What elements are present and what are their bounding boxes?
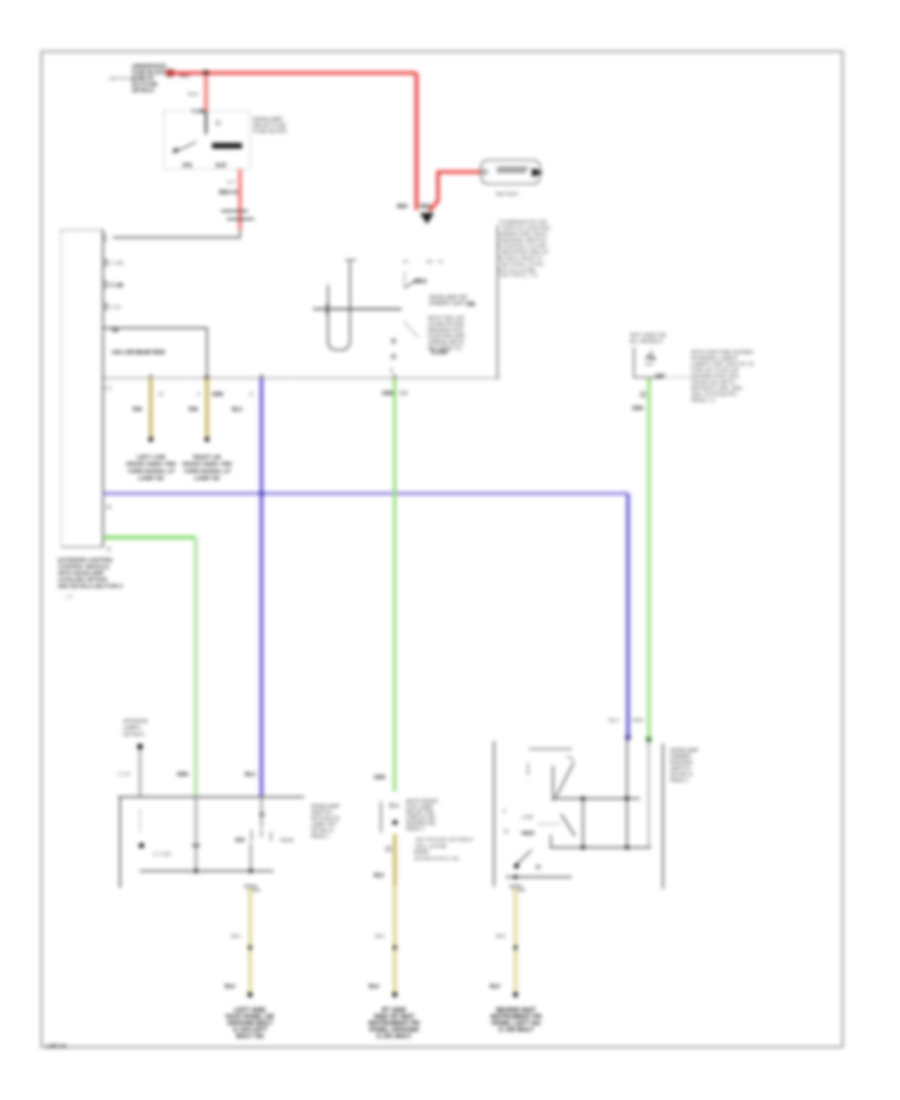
- tan g2 mid node: [393, 946, 397, 950]
- DRL module bracket: [634, 347, 662, 378]
- dimmer box right bar: [662, 744, 664, 890]
- connector row C2 dashed: [103, 377, 500, 379]
- inner dash: [527, 763, 529, 775]
- vert blue continuation: [626, 739, 628, 848]
- svg-text:C 100: C 100: [192, 109, 206, 115]
- relay name text: [253, 117, 288, 135]
- wire tan switch ground: [248, 888, 252, 994]
- svg-text:8: 8: [250, 392, 253, 398]
- switch boundary vertical: [497, 225, 499, 378]
- svg-text:INTERIOR: INTERIOR: [123, 719, 148, 725]
- dimmer wiper: [404, 279, 419, 288]
- svg-text:FLASH: FLASH: [431, 350, 448, 356]
- svg-text:LAMP GD: LAMP GD: [138, 476, 164, 482]
- svg-text:BLK: BLK: [225, 984, 236, 990]
- bottom bus line: [506, 876, 572, 878]
- svg-text:LAMP GD: LAMP GD: [194, 476, 220, 482]
- svg-text:9: 9: [197, 392, 200, 398]
- vert mid: [582, 799, 584, 848]
- svg-text:PAGE 2: PAGE 2: [670, 778, 688, 784]
- svg-text:FRONT PARK TRN: FRONT PARK TRN: [182, 462, 231, 468]
- tan g1 end node: [247, 992, 252, 997]
- position text lines: [429, 295, 472, 307]
- svg-text:RED 0.5: RED 0.5: [219, 190, 238, 196]
- svg-text:60 A: 60 A: [188, 92, 199, 98]
- contact circle: [260, 813, 264, 817]
- contact ticks: [252, 830, 272, 841]
- node S110 junction: [203, 70, 209, 76]
- switch pole blue: [261, 797, 263, 828]
- dimmer passing name text: [670, 748, 699, 784]
- wire red battery branch: [429, 172, 483, 211]
- svg-text:CONTROL MODULE: CONTROL MODULE: [58, 565, 110, 571]
- pin C152: [103, 304, 121, 311]
- svg-text:FRONT PARK TRN: FRONT PARK TRN: [126, 462, 175, 468]
- node C117 dot: [137, 744, 143, 750]
- svg-text:BLK: BLK: [369, 984, 380, 990]
- wire tan low beam left: [149, 378, 153, 438]
- svg-text:INFORMATION G 201: INFORMATION G 201: [414, 856, 460, 861]
- relay K1 box: [164, 111, 250, 169]
- svg-text:PAGE 2 2: PAGE 2 2: [691, 398, 715, 404]
- node B-blue: [625, 846, 629, 850]
- wire to module: [113, 230, 240, 238]
- svg-text:86: 86: [173, 148, 179, 154]
- svg-text:GRN: GRN: [382, 391, 394, 397]
- dimmer box left bar: [493, 741, 495, 887]
- DRL contact marks: [645, 363, 653, 365]
- bus line A: [553, 798, 640, 800]
- svg-text:GRN: GRN: [632, 406, 644, 412]
- node bottom: [514, 875, 518, 879]
- headlamp switch inner bottom: [140, 870, 274, 872]
- svg-text:EXTERIOR LIGHTING: EXTERIOR LIGHTING: [58, 558, 113, 564]
- svg-text:30: 30: [438, 259, 444, 264]
- battery B1: [481, 160, 543, 198]
- pin tick T4: [394, 375, 396, 382]
- wire blue corner down: [626, 494, 630, 738]
- svg-text:A16 LOW BEAM FEED: A16 LOW BEAM FEED: [112, 350, 165, 356]
- svg-text:C 140: C 140: [110, 261, 124, 267]
- node B-mid: [581, 846, 585, 850]
- svg-text:A6: A6: [112, 328, 119, 334]
- svg-text:56B: 56B: [399, 391, 409, 397]
- green splice circle: [641, 392, 646, 397]
- wire red relay output: [238, 169, 242, 230]
- ground text G104: [226, 1007, 275, 1040]
- svg-text:PAGE 1: PAGE 1: [311, 834, 329, 840]
- pin tick T3: [261, 375, 263, 382]
- module U1 box: [102, 230, 104, 547]
- DRL note text block: [691, 350, 754, 404]
- wire red feed horizontal: [166, 71, 417, 75]
- svg-text:TAN: TAN: [132, 407, 142, 413]
- svg-text:SEE GROUND DISTRIBUT: SEE GROUND DISTRIBUT: [415, 837, 474, 843]
- node junction at pin row: [205, 376, 209, 380]
- wire C117 to switch: [139, 749, 141, 797]
- node output-bottom: [249, 869, 253, 873]
- headlamp switch name: [311, 804, 340, 840]
- svg-text:C 15: C 15: [110, 305, 121, 311]
- shaft left tick: [326, 304, 328, 316]
- wire tan dimmer ground: [513, 888, 517, 994]
- combination switch lever U: [328, 261, 350, 350]
- svg-text:1 2: 1 2: [66, 594, 73, 599]
- wiper corner: [550, 835, 552, 848]
- fusible link terminal: [166, 70, 174, 77]
- wire green switch output: [393, 378, 397, 792]
- fuse F5 label text: [109, 76, 136, 82]
- dimmer contact dashes: [404, 272, 406, 286]
- svg-text:RED: RED: [420, 204, 431, 210]
- svg-text:DETAILS: DETAILS: [132, 88, 154, 94]
- pole tick: [192, 845, 200, 847]
- node green end: [646, 737, 652, 743]
- node blue end: [625, 735, 631, 741]
- svg-text:HIGH: HIGH: [414, 279, 427, 285]
- svg-text:OFF: OFF: [235, 838, 245, 844]
- svg-text:BLK: BLK: [374, 873, 385, 879]
- vert green continuation: [648, 742, 650, 848]
- svg-text:BLU: BLU: [609, 718, 619, 724]
- wire grey to connector row: [103, 328, 207, 377]
- svg-text:31: 31: [106, 547, 112, 553]
- passing text lines: [428, 316, 465, 352]
- tan g1 mid node: [248, 946, 252, 950]
- svg-text:BLK: BLK: [375, 934, 385, 940]
- switch inner dashes: [139, 810, 141, 832]
- svg-text:LAMPS: LAMPS: [123, 726, 141, 732]
- svg-text:BOLT GD: BOLT GD: [236, 1033, 264, 1040]
- svg-text:G 105 BOLT: G 105 BOLT: [499, 1027, 534, 1034]
- tan g3 end node: [513, 992, 518, 997]
- pin tick T1: [150, 375, 152, 382]
- contact circle b: [392, 355, 396, 359]
- svg-text:ALL MODELS: ALL MODELS: [630, 339, 663, 345]
- svg-text:G 201 BOLT: G 201 BOLT: [377, 1033, 412, 1040]
- battery splice labels: [397, 204, 431, 210]
- svg-text:30: 30: [106, 505, 112, 511]
- wire red feed vertical: [415, 73, 419, 210]
- svg-text:BATTERY: BATTERY: [496, 192, 519, 198]
- svg-text:BLK: BLK: [490, 984, 501, 990]
- svg-text:C 2 126: C 2 126: [153, 852, 171, 858]
- svg-text:C 2: C 2: [104, 386, 112, 392]
- relay contact arm: [173, 142, 196, 153]
- node A-mid: [581, 797, 585, 801]
- svg-text:TURN SIGNAL LP: TURN SIGNAL LP: [128, 469, 175, 475]
- svg-text:TURN SIGNAL LP: TURN SIGNAL LP: [184, 469, 231, 475]
- switch arm vertical: [552, 766, 554, 802]
- svg-text:12: 12: [158, 392, 164, 398]
- pin C146: [103, 282, 124, 289]
- svg-text:2.8: 2.8: [468, 302, 475, 308]
- diag top tick: [567, 756, 574, 760]
- right low beam lamp text: [182, 455, 231, 482]
- svg-text:HEAD: HEAD: [280, 838, 294, 844]
- switch pole green: [195, 797, 197, 871]
- arrow to battery junction: [420, 213, 434, 224]
- svg-text:GRN: GRN: [374, 775, 386, 781]
- flash wiper dashed: [404, 322, 419, 338]
- svg-text:WITH HEADLAMP: WITH HEADLAMP: [58, 571, 104, 577]
- splice circle: [386, 847, 391, 852]
- svg-text:1 OF 2 A: 1 OF 2 A: [46, 1044, 66, 1050]
- left low beam lamp text: [126, 455, 175, 482]
- lower wiper diagonal: [514, 850, 531, 867]
- wire green from module: [103, 536, 196, 539]
- bus line B: [550, 847, 651, 849]
- connector bracket below switch: [244, 886, 260, 890]
- ground text G105: [491, 1007, 542, 1034]
- svg-text:FUSE BLOCK: FUSE BLOCK: [253, 129, 288, 135]
- pin C140: [103, 260, 124, 267]
- connector C110 symbol: [221, 211, 254, 219]
- lever top tick: [345, 259, 356, 261]
- svg-text:BLU: BLU: [232, 407, 243, 413]
- module name text: [58, 558, 123, 599]
- svg-text:OFF: OFF: [655, 374, 665, 380]
- headlamp switch box top: [118, 796, 304, 798]
- connector bracket below dimmer: [509, 886, 525, 890]
- svg-text:LEFT LOW: LEFT LOW: [137, 455, 166, 461]
- svg-text:10: 10: [503, 829, 509, 835]
- wire green DRL down: [647, 378, 651, 738]
- svg-text:RIGHT LW: RIGHT LW: [193, 455, 221, 461]
- svg-text:GRN: GRN: [177, 772, 189, 778]
- svg-text:BLU: BLU: [245, 772, 256, 778]
- lower wiper dot: [514, 864, 519, 869]
- svg-text:87A: 87A: [183, 163, 193, 169]
- switch arm diagonal: [556, 762, 574, 797]
- daytime running lamp module name: [630, 333, 666, 345]
- wire blue vertical: [260, 378, 264, 796]
- node pole-bottom: [194, 869, 198, 873]
- tan g3 mid node: [514, 946, 518, 950]
- contact tick c: [391, 368, 393, 373]
- svg-text:S 2: S 2: [227, 180, 235, 186]
- svg-text:HIGH: HIGH: [522, 831, 535, 837]
- underhood fuse block text: [132, 64, 166, 94]
- ground text G201: [369, 1007, 420, 1040]
- svg-text:SEE PAGE 2 10: SEE PAGE 2 10: [499, 273, 538, 279]
- module pin stub 239: [103, 236, 107, 240]
- photocell dot: [393, 820, 398, 825]
- tan g2 end node: [392, 992, 397, 997]
- svg-text:GRN: GRN: [212, 392, 224, 398]
- wire blue horizontal from module: [103, 492, 628, 495]
- svg-text:BLK: BLK: [496, 934, 506, 940]
- svg-text:LOW: LOW: [522, 815, 534, 821]
- photocell name text: [406, 799, 439, 833]
- photocell bracket: [380, 802, 382, 833]
- svg-text:GRN: GRN: [632, 718, 644, 724]
- wire tan photocell down: [393, 834, 397, 886]
- svg-text:PAGE 2: PAGE 2: [406, 827, 424, 833]
- combination switch dense label: [497, 220, 550, 279]
- svg-text:B 87: B 87: [216, 163, 227, 169]
- svg-text:SEE DETAILS SECTION 2: SEE DETAILS SECTION 2: [58, 584, 123, 590]
- contact circle a: [392, 339, 396, 343]
- switch shaft horizontal: [313, 308, 402, 310]
- relay coil bar: [212, 143, 242, 149]
- blue junction node: [259, 491, 264, 496]
- interior lamps feed text: [123, 719, 148, 738]
- relay coil lead: [204, 74, 208, 111]
- switch inner dot: [139, 843, 144, 848]
- top inner line: [529, 748, 572, 750]
- DRL internal wiper: [645, 351, 653, 359]
- wiper diagonal: [561, 814, 575, 836]
- svg-text:56: 56: [403, 259, 409, 264]
- svg-text:9: 9: [503, 809, 506, 815]
- svg-text:DIMMER SWITCH: DIMMER SWITCH: [429, 301, 472, 307]
- wire green down to switch: [194, 538, 198, 797]
- svg-text:56A: 56A: [426, 259, 435, 264]
- photocell contact: [390, 804, 394, 808]
- switch pin labels: [403, 259, 444, 264]
- lower contact circle: [536, 865, 540, 869]
- tan2 end node: [205, 437, 210, 442]
- wiper dashes: [539, 823, 560, 825]
- switch output wire: [250, 843, 252, 871]
- svg-text:BLK: BLK: [231, 934, 241, 940]
- svg-text:LEVELING OPTION: LEVELING OPTION: [58, 578, 107, 584]
- svg-text:RED: RED: [397, 204, 408, 210]
- node A-blue: [625, 797, 629, 801]
- svg-text:C 146: C 146: [110, 283, 124, 289]
- wire tan low beam right: [205, 378, 209, 438]
- note lines below: [414, 837, 474, 861]
- svg-text:DETAILS: DETAILS: [123, 732, 145, 738]
- headlamp switch box left: [119, 797, 121, 888]
- tan1 end node: [148, 437, 153, 442]
- svg-text:TAN: TAN: [188, 407, 198, 413]
- svg-text:ON: ON: [648, 356, 656, 362]
- svg-text:C 117: C 117: [118, 772, 131, 778]
